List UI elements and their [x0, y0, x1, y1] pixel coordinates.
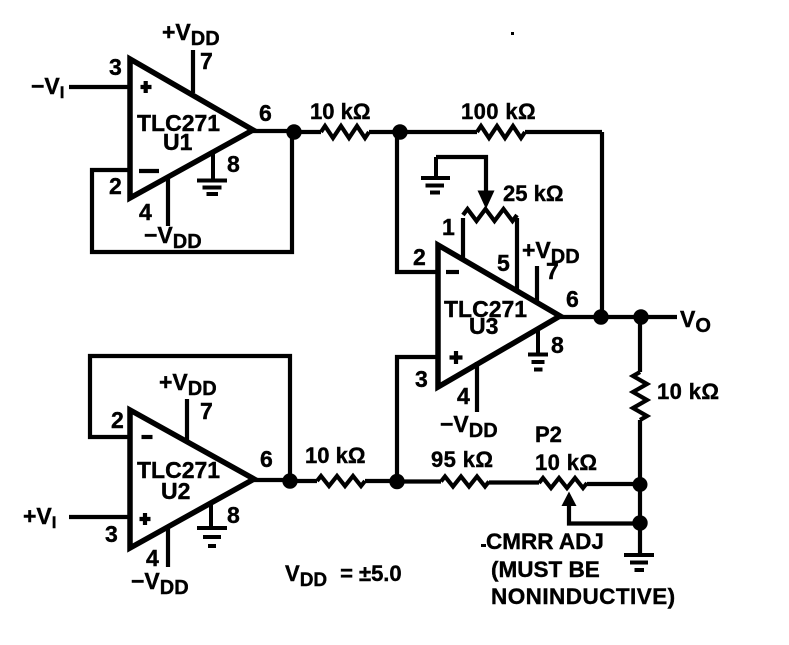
- svg-text:95 kΩ: 95 kΩ: [431, 447, 493, 472]
- svg-text:−VI: −VI: [31, 73, 65, 102]
- wire output down: [638, 317, 642, 372]
- op-amp U1: [130, 59, 253, 198]
- svg-text:25 kΩ: 25 kΩ: [503, 181, 563, 206]
- resistor 100 k ohm: [400, 126, 602, 138]
- svg-text:10 kΩ: 10 kΩ: [535, 450, 597, 475]
- node output left: [593, 309, 608, 324]
- wire input to U1 pin 3: [69, 85, 131, 89]
- svg-text:U3: U3: [469, 313, 498, 339]
- resistor 10 k ohm (U1 output): [298, 126, 400, 138]
- node bottom junction: [389, 474, 404, 489]
- svg-text:5: 5: [497, 250, 510, 276]
- svg-text:2: 2: [413, 244, 426, 270]
- wire U3 pin 7: [535, 266, 539, 302]
- wire U2 pin 4: [166, 528, 170, 567]
- svg-text:CMRR ADJ: CMRR ADJ: [486, 529, 604, 554]
- potentiometer P2 10 k ohm: [539, 478, 640, 488]
- node wiper junction: [632, 515, 647, 530]
- P2 wiper arrowhead: [562, 492, 577, 507]
- svg-text:2: 2: [111, 407, 124, 433]
- svg-text:8: 8: [227, 502, 240, 528]
- svg-text:6: 6: [260, 446, 273, 472]
- op-amp U3: [438, 245, 560, 387]
- node U1 output: [286, 124, 301, 139]
- wire U3 pin 4: [475, 362, 479, 412]
- stray speck: [511, 32, 514, 35]
- svg-text:7: 7: [200, 48, 213, 74]
- wiper arrowhead: [478, 191, 495, 210]
- svg-text:+VI: +VI: [23, 503, 57, 532]
- node U2 output: [282, 473, 297, 488]
- wire 100 k to output node: [600, 132, 604, 317]
- node P2 right: [633, 477, 648, 492]
- wire U1 pin 4: [166, 176, 170, 226]
- svg-text:6: 6: [566, 286, 579, 312]
- wire U1 output: [253, 129, 298, 133]
- svg-text:10 kΩ: 10 kΩ: [657, 379, 719, 404]
- resistor 10 k ohm (U2 output): [290, 476, 397, 486]
- wire U2 output: [254, 478, 294, 482]
- svg-text:2: 2: [109, 173, 122, 199]
- op-amp U2: [130, 410, 254, 548]
- wire load to bottom: [638, 420, 642, 554]
- svg-text:8: 8: [227, 151, 240, 177]
- svg-text:1: 1: [442, 214, 455, 240]
- node output right: [633, 309, 648, 324]
- svg-text:3: 3: [109, 54, 122, 80]
- resistor 95 k ohm: [397, 477, 539, 487]
- svg-text:7: 7: [200, 398, 213, 424]
- U3 pin 8 ground: [528, 331, 548, 370]
- wire P2 wiper: [569, 504, 640, 524]
- wire U3 pin 5: [515, 218, 519, 292]
- svg-text:3: 3: [105, 521, 118, 547]
- potentiometer 25 k ohm: [463, 209, 517, 221]
- svg-text:(MUST BE: (MUST BE: [491, 557, 600, 582]
- svg-text:NONINDUCTIVE): NONINDUCTIVE): [491, 584, 676, 609]
- wire U2 pin 7: [185, 399, 189, 443]
- wire U2 feedback pin 2: [90, 356, 290, 478]
- svg-text:U1: U1: [163, 129, 193, 155]
- svg-text:6: 6: [259, 100, 272, 126]
- svg-text:100 kΩ: 100 kΩ: [461, 99, 536, 124]
- resistor 10 k ohm (output load): [633, 372, 647, 420]
- wiper ground (25 k): [421, 157, 450, 193]
- wire U1 pin 7: [191, 50, 195, 93]
- svg-text:10 kΩ: 10 kΩ: [305, 443, 365, 468]
- wire U3 output: [560, 315, 677, 319]
- svg-text:10 kΩ: 10 kΩ: [310, 99, 370, 124]
- U2 pin 8 ground: [197, 505, 227, 546]
- node summing junction: [392, 124, 407, 139]
- svg-text:U2: U2: [161, 478, 190, 504]
- wire U3 pin 3: [397, 357, 439, 481]
- svg-text:3: 3: [415, 366, 428, 392]
- wire input to U2 pin 3: [69, 515, 131, 519]
- wire U3 pin 1: [461, 218, 465, 260]
- wire node to U3 pin 2: [397, 134, 439, 272]
- svg-text:4: 4: [457, 383, 470, 409]
- ground bottom right: [624, 555, 654, 570]
- svg-text:P2: P2: [535, 422, 562, 447]
- stray dash: [481, 544, 486, 547]
- svg-text:7: 7: [546, 258, 559, 284]
- wire U1 feedback pin 2: [92, 137, 292, 252]
- wire wiper arm: [436, 157, 486, 194]
- U1 pin 8 ground: [197, 152, 227, 194]
- svg-text:8: 8: [551, 332, 564, 358]
